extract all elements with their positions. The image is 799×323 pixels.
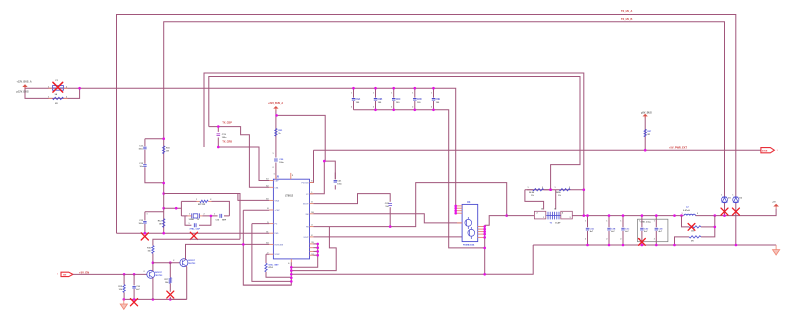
svg-text:2: 2 (431, 107, 432, 109)
svg-text:1: 1 (147, 214, 148, 216)
wire pin7 path w/ Rosc (266, 253, 269, 255)
wire parallel branch right (701, 216, 715, 237)
wire bank bottom rail (354, 110, 485, 248)
svg-text:C3C: C3C (625, 228, 630, 230)
pin U5 right low 243.9 (310, 243, 314, 245)
svg-text:0.47uH: 0.47uH (683, 209, 690, 212)
pin 5 U5 right (310, 182, 314, 184)
resistor R16 (152, 246, 154, 254)
wire main 5V line through transformer (507, 215, 535, 217)
wire Q2 collector/emitter (185, 244, 187, 259)
svg-text:FDMA1024: FDMA1024 (463, 244, 475, 247)
wire TX_HV_A top loop : pin11 rail up-over to diode D2 (117, 15, 736, 234)
svg-text:BC817: BC817 (188, 260, 195, 262)
svg-text:SYNC: SYNC (275, 254, 281, 256)
wire xtal loop (164, 207, 182, 209)
gnd bridge box (638, 219, 668, 242)
resistor R31 (559, 189, 570, 191)
wire pin2 VOUT (313, 236, 462, 238)
svg-text:1%: 1% (531, 195, 534, 197)
capacitor C21 vc (334, 173, 336, 180)
svg-text:1: 1 (189, 223, 190, 225)
capacitor C13 (dnp) (145, 211, 164, 213)
svg-text:100n: 100n (138, 223, 143, 225)
svg-text:C3E: C3E (658, 228, 663, 230)
svg-text:10: 10 (554, 208, 556, 210)
wire crystal feed (164, 194, 240, 240)
svg-text:+5V_PWR_EXT: +5V_PWR_EXT (669, 146, 687, 149)
wire gnd fan 1 (291, 244, 317, 267)
wire +3V3 branch right to pin1 net (277, 115, 326, 161)
svg-text:C8B: C8B (378, 98, 383, 101)
resistor R_OSC 47k5 (265, 263, 267, 272)
transistor Q1 (147, 270, 155, 278)
wire gnd rail bottom-left (124, 298, 187, 300)
svg-text:1: 1 (654, 220, 655, 222)
svg-text:2: 2 (620, 238, 621, 240)
wire pin12 path (209, 127, 269, 188)
resistor R15 (123, 274, 125, 299)
wire pin8 path (243, 210, 291, 285)
wire TX_HV_B second top loop : left bus down to diode D1 (164, 22, 725, 233)
capacitor C32 y-cap (622, 216, 624, 245)
resistor R_5v flag 0R (644, 129, 646, 137)
svg-text:/SOT23: /SOT23 (155, 275, 163, 277)
svg-text:100n: 100n (138, 149, 143, 151)
svg-text:1: 1 (214, 214, 215, 216)
svg-text:1: 1 (721, 194, 722, 196)
svg-text:1: 1 (543, 217, 544, 219)
svg-text:EN: EN (63, 275, 66, 277)
svg-text:2: 2 (351, 107, 352, 109)
wire +5V_PWR to port (314, 149, 761, 151)
pin 11 U5 left (269, 232, 273, 234)
pin 3 U5 top (275, 176, 277, 180)
ground arrow PE right (773, 245, 780, 255)
svg-text:2: 2 (606, 238, 607, 240)
crystal Y1 (193, 214, 198, 218)
inductor L2 0.47uH (684, 214, 696, 215)
svg-text:TX_CBP: TX_CBP (222, 121, 232, 124)
wire +3V3 feed chain (275, 110, 277, 158)
wire gnd fan 2 (291, 227, 336, 271)
wire pin14 / gnd rail to Q2 (186, 244, 270, 259)
svg-text:2: 2 (412, 107, 413, 109)
pin 6 U5 bottom pad (290, 259, 292, 262)
svg-text:2: 2 (273, 167, 274, 169)
wire pin9 path (252, 223, 269, 225)
svg-text:GND_brdg: GND_brdg (641, 221, 652, 223)
junction 5V flag node (644, 149, 647, 152)
svg-text:C8D: C8D (417, 98, 422, 101)
resistor R35 (dnp) (689, 226, 701, 228)
op-amp U5 main IC body (273, 179, 309, 259)
capacitor C10 bank (353, 88, 355, 110)
wire main line right of L (696, 209, 777, 216)
pin 18 U5 right (310, 213, 314, 215)
resistor R0 bypass (49, 97, 53, 99)
svg-text:1: 1 (732, 194, 733, 196)
wire Q1->Q2 base (153, 262, 180, 264)
diode D1 tvs (722, 197, 727, 202)
svg-text:2: 2 (210, 199, 211, 201)
resistor R13 xtal (197, 200, 200, 202)
diode D2 tvs (733, 197, 738, 202)
transformer T1 (534, 211, 545, 219)
wire gnd rail right (533, 244, 776, 246)
svg-text:C8E: C8E (436, 98, 441, 101)
svg-text:1: 1 (620, 220, 621, 222)
wire pin13 path (218, 147, 269, 181)
transistor U4 dual FET body (462, 204, 478, 241)
svg-text:2: 2 (173, 260, 174, 262)
pin 10 U5 left (269, 199, 273, 201)
wire gnd fan long (291, 245, 533, 274)
capacitor C19 TX coupling (217, 127, 219, 147)
wire parallel branch left (682, 216, 690, 227)
+5V small arrow (774, 204, 778, 208)
capacitor C34 y-cap (655, 216, 657, 245)
wire Q1 collector chain (152, 263, 154, 271)
wire pin4 boot w/ cap (313, 194, 390, 204)
svg-text:2: 2 (542, 187, 543, 189)
svg-text:C8A: C8A (275, 186, 279, 189)
svg-text:TX_HV_B: TX_HV_B (621, 18, 632, 21)
pin U5 right low 255.2 (310, 254, 314, 256)
svg-text:PGOOD: PGOOD (302, 183, 310, 185)
junction TX/rail nodes (583, 214, 586, 217)
svg-text:OSC_SET: OSC_SET (268, 264, 279, 266)
capacitor C15 xtal (220, 214, 222, 218)
svg-text:1: 1 (273, 153, 274, 155)
resistor R21 (275, 129, 277, 137)
svg-text:TX_CRB: TX_CRB (222, 141, 232, 144)
svg-text:BOOT: BOOT (303, 204, 309, 206)
resistor R11 (163, 146, 165, 154)
svg-text:2: 2 (654, 238, 655, 240)
svg-text:1: 1 (373, 92, 374, 94)
capacitor C_boot (388, 204, 392, 206)
svg-text:2: 2 (144, 271, 145, 273)
pin 7 U5 left (269, 253, 273, 255)
wire divider rail (525, 189, 584, 191)
wire TX pair inner (209, 77, 580, 190)
capacitor C11 (144, 139, 146, 164)
svg-text:1%: 1% (558, 195, 561, 197)
pin 12 U5 left (269, 186, 273, 188)
wire +5V flag stub (644, 117, 646, 151)
svg-text:U4: U4 (467, 200, 471, 204)
svg-text:1CAF: 1CAF (555, 221, 561, 224)
capacitor C33 y-cap (641, 216, 643, 245)
svg-text:+3V3_BUS_A: +3V3_BUS_A (268, 102, 283, 105)
svg-text:2: 2 (697, 213, 698, 215)
wire pin1 bypass cap branch (324, 161, 335, 179)
capacitor C30 y-cap (587, 216, 589, 245)
svg-text:XTAL_CAP: XTAL_CAP (190, 227, 201, 230)
svg-text:+12V_BUS_A: +12V_BUS_A (17, 81, 32, 84)
capacitor C11 bank (375, 88, 377, 110)
wire pin3 FB net (313, 183, 506, 227)
svg-text:/SOT23: /SOT23 (188, 263, 196, 265)
wire +12V bus main horizontal (25, 88, 456, 213)
pin 13 U5 left (269, 180, 273, 182)
svg-text:p12V_BUS: p12V_BUS (17, 91, 29, 94)
svg-text:12MH: 12MH (189, 219, 195, 221)
wire pin10 path (238, 194, 269, 201)
svg-text:PAD: PAD (275, 232, 279, 235)
svg-text:+CAP: +CAP (275, 209, 281, 212)
wire pin1 riser (310, 161, 324, 194)
svg-text:1M: 1M (166, 151, 169, 153)
svg-text:1: 1 (196, 199, 197, 201)
pin U5 right low 247.7 (310, 247, 314, 249)
capacitor C31 y-cap (608, 216, 610, 245)
resistor R30 24.9k (527, 189, 551, 191)
svg-text:2: 2 (569, 187, 570, 189)
svg-text:2: 2 (391, 107, 392, 109)
junction pin1 node (323, 160, 326, 163)
svg-text:24.9k: 24.9k (529, 191, 535, 194)
svg-text:1: 1 (528, 187, 529, 189)
svg-text:TX_HV_A: TX_HV_A (621, 10, 632, 13)
svg-text:p5V_BUS: p5V_BUS (641, 112, 652, 115)
capacitor C16 (133, 274, 135, 299)
svg-text:1: 1 (585, 220, 586, 222)
wire pin11 ground rail (117, 232, 270, 234)
pin 3 U5 right (310, 226, 314, 228)
svg-text:2: 2 (537, 212, 538, 214)
wire +12V fuse parallel branch (25, 85, 80, 99)
svg-text:BC817: BC817 (155, 272, 162, 274)
svg-text:1: 1 (189, 213, 190, 215)
capacitor C12 (145, 167, 164, 183)
svg-text:2: 2 (373, 107, 374, 109)
svg-text:1: 1 (412, 92, 413, 94)
svg-text:C8C: C8C (396, 98, 401, 101)
svg-text:100n: 100n (222, 137, 227, 139)
svg-text:3: 3 (570, 217, 571, 219)
pin 1 U5 right (310, 193, 314, 195)
port +5V_EN (61, 272, 73, 276)
svg-text:C3B: C3B (611, 228, 616, 230)
pin 9 U5 left (269, 223, 273, 225)
capacitor C20 series (274, 159, 278, 161)
pin U5 right low 251.4 (310, 250, 314, 252)
svg-text:+5V: +5V (772, 202, 776, 204)
svg-text:1: 1 (606, 220, 607, 222)
ground arrow (120, 299, 127, 309)
svg-text:2: 2 (585, 238, 586, 240)
svg-text:SW: SW (306, 214, 309, 216)
resistor R17 (169, 263, 171, 292)
svg-text:ROSC/EN: ROSC/EN (275, 244, 284, 246)
svg-text:5V0E: 5V0E (762, 151, 768, 153)
svg-text:LT8612: LT8612 (285, 195, 294, 198)
pin 8 U5 left (269, 209, 273, 211)
svg-text:1: 1 (351, 92, 352, 94)
svg-text:16: 16 (541, 208, 543, 210)
svg-text:1: 1 (391, 92, 392, 94)
svg-text:2: 2 (204, 213, 205, 215)
svg-text:VINA: VINA (275, 199, 280, 202)
svg-text:100n: 100n (337, 183, 342, 185)
svg-text:100n: 100n (279, 162, 284, 164)
svg-text:1: 1 (555, 187, 556, 189)
svg-text:C3D: C3D (644, 228, 649, 230)
pin 4 U5 right (310, 203, 314, 205)
wire TX pair outer : x204 over to transformer area (204, 73, 584, 216)
pin 2 U5 top (290, 173, 292, 179)
wire EN to Q1 base (73, 273, 147, 275)
svg-text:C3A: C3A (590, 227, 595, 230)
wire U4 left gate bus (455, 206, 457, 213)
junction fuse bypass node (78, 87, 81, 90)
resistor R12 (163, 219, 165, 228)
capacitor C12 bank (393, 88, 395, 110)
resistor R36 0R (689, 236, 701, 238)
wire U4 right bus (484, 225, 486, 274)
pin 2 U5 right (310, 236, 314, 238)
svg-text:1: 1 (57, 273, 58, 275)
capacitor C14 xtal bottom (dnp) (194, 223, 196, 227)
svg-text:1M: 1M (159, 223, 162, 225)
wire pin5 riser (310, 150, 314, 182)
transistor Q2 (180, 259, 188, 267)
svg-text:2: 2 (66, 97, 67, 99)
pin 14 U5 left (269, 243, 273, 245)
fuse F1 (dnp) (53, 86, 64, 91)
capacitor C14 bank (433, 88, 435, 110)
wire pin SW to FET (313, 214, 462, 223)
svg-text:1: 1 (431, 92, 432, 94)
svg-text:VOUT: VOUT (303, 237, 309, 239)
svg-text:C8A: C8A (356, 98, 361, 101)
svg-text:1: 1 (48, 97, 49, 99)
svg-text:ATF RR: ATF RR (198, 203, 206, 206)
capacitor C13 bank (414, 88, 416, 110)
